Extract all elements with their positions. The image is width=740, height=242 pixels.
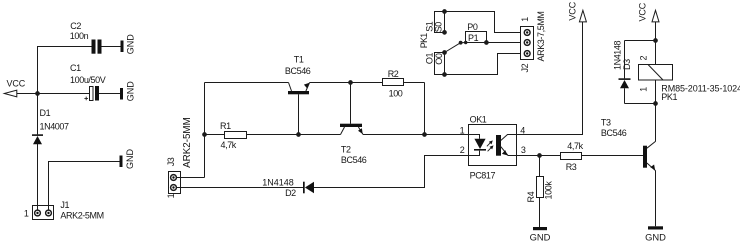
- svg-text:GND: GND: [125, 34, 135, 55]
- svg-text:GND: GND: [125, 149, 135, 170]
- svg-text:R3: R3: [566, 162, 577, 172]
- junction node relay coil pin 2 / D3: [653, 38, 658, 43]
- wire C1 to GND: [99, 93, 120, 95]
- svg-text:P0: P0: [467, 22, 478, 32]
- svg-text:1: 1: [639, 87, 649, 92]
- wire D2 to OK1 pin 2: [314, 156, 469, 188]
- svg-text:J2: J2: [520, 63, 530, 72]
- svg-text:3: 3: [521, 145, 526, 155]
- svg-text:O0: O0: [434, 53, 444, 65]
- switch arm: [445, 41, 466, 53]
- svg-text:PC817: PC817: [470, 170, 496, 180]
- svg-text:J1: J1: [60, 200, 69, 210]
- transistor T3: [643, 141, 656, 170]
- junction node T2 base: [348, 80, 353, 85]
- ground GND (C1): [120, 81, 135, 102]
- svg-text:R1: R1: [220, 121, 231, 131]
- svg-text:4,7k: 4,7k: [567, 141, 583, 151]
- wire D1 to J1 pin 1: [37, 144, 39, 210]
- ground GND (R4): [530, 227, 551, 242]
- connector J2: [521, 27, 534, 60]
- OK1 phototransistor: [496, 135, 517, 156]
- svg-text:BC546: BC546: [601, 128, 627, 138]
- svg-text:1: 1: [166, 193, 176, 198]
- svg-text:100n: 100n: [70, 31, 89, 41]
- junction node R1/left rail: [202, 132, 207, 137]
- resistor R4: [537, 156, 544, 228]
- connector J1: [33, 206, 54, 220]
- svg-text:4,7k: 4,7k: [221, 140, 237, 150]
- relay coil PK1: [639, 41, 673, 104]
- svg-text:1: 1: [24, 209, 29, 219]
- wire O0 to J2 pin 3: [445, 54, 521, 75]
- svg-text:OK1: OK1: [470, 115, 487, 125]
- connector J3: [169, 172, 181, 194]
- optocoupler OK1 box: [469, 125, 517, 166]
- wire VCC node up and right to C2: [38, 47, 92, 94]
- wire left rail vertical: [204, 83, 206, 178]
- svg-text:2: 2: [639, 56, 649, 61]
- svg-text:ARK3-7,5MM: ARK3-7,5MM: [536, 11, 546, 61]
- svg-text:GND: GND: [645, 232, 666, 242]
- wire T3 emitter to GND: [655, 171, 657, 227]
- svg-text:C2: C2: [70, 21, 81, 31]
- power flag VCC (OK1): [567, 1, 586, 22]
- resistor R2: [383, 79, 425, 86]
- svg-text:100: 100: [389, 88, 403, 98]
- capacitor C1 (polarized): [84, 86, 99, 101]
- svg-text:1N4148: 1N4148: [262, 178, 294, 188]
- junction node relay coil pin 1 / D3: [653, 101, 658, 106]
- junction node R3/R4: [537, 153, 542, 158]
- capacitor C2: [92, 40, 102, 54]
- resistor R1: [205, 132, 299, 139]
- svg-text:T2: T2: [341, 144, 351, 154]
- junction node VCC/C1/D1: [35, 91, 40, 96]
- wire J1 pin 2 to GND: [49, 162, 120, 211]
- wire relay node to VCC: [655, 22, 657, 41]
- ground GND (T3): [645, 226, 666, 242]
- svg-text:ARK2-5MM: ARK2-5MM: [60, 211, 103, 221]
- svg-text:100k: 100k: [544, 181, 554, 200]
- svg-text:BC546: BC546: [341, 155, 367, 165]
- svg-text:100u/50V: 100u/50V: [70, 75, 106, 85]
- wire top rail to T1 collector: [205, 82, 289, 84]
- svg-text:R4: R4: [526, 191, 536, 202]
- power flag VCC (left): [4, 78, 26, 97]
- svg-text:BC546: BC546: [285, 66, 311, 76]
- power flag VCC (relay): [637, 2, 659, 22]
- ground GND (J1): [120, 149, 135, 170]
- wire C2 to GND: [101, 46, 120, 48]
- wire OK1 pin 4 to VCC: [517, 22, 583, 135]
- svg-text:1N4007: 1N4007: [40, 122, 70, 132]
- relay pole box P0/P1: [464, 32, 489, 45]
- svg-text:GND: GND: [530, 231, 551, 242]
- relay contact S (S1/S0): [435, 9, 447, 35]
- diode D3: [619, 41, 656, 104]
- svg-text:1: 1: [520, 17, 530, 22]
- svg-text:T1: T1: [294, 54, 304, 64]
- wire VCC node to C1: [38, 93, 90, 95]
- wire top rail T1 emitter to R2: [310, 82, 383, 84]
- svg-text:PK1: PK1: [661, 92, 677, 102]
- wire T2 emitter to OK1 pin 1: [363, 134, 469, 136]
- svg-text:GND: GND: [125, 81, 135, 102]
- svg-text:VCC: VCC: [567, 1, 577, 20]
- transistor T1: [288, 83, 310, 135]
- svg-text:R2: R2: [388, 69, 399, 79]
- svg-text:J3: J3: [166, 157, 176, 166]
- relay contact O (O1/O0): [435, 50, 447, 77]
- ground GND (C2): [121, 34, 136, 55]
- wire S1 to J2 pin 1: [445, 12, 521, 33]
- wire bottom rail T1 base to T2 collector: [299, 134, 341, 136]
- svg-text:P1: P1: [468, 33, 479, 43]
- OK1 LED: [469, 135, 487, 156]
- svg-text:C1: C1: [70, 63, 81, 73]
- wire VCC flag to VCC node: [17, 93, 38, 95]
- wire J3 pin 2 to D2: [176, 187, 303, 189]
- svg-text:D2: D2: [285, 188, 296, 198]
- svg-text:PK1: PK1: [419, 33, 429, 48]
- wire OK1 pin 3 to R3: [517, 155, 561, 157]
- svg-text:T3: T3: [601, 117, 611, 127]
- wire P1 to J2 pin 2: [487, 42, 521, 44]
- OK1 light arrows: [487, 140, 494, 151]
- svg-text:ARK2-5MM: ARK2-5MM: [182, 117, 193, 168]
- resistor R3: [561, 153, 644, 160]
- wire T3 collector to relay coil: [655, 104, 657, 142]
- svg-text:1: 1: [460, 126, 465, 136]
- svg-text:D1: D1: [40, 108, 51, 118]
- svg-text:S0: S0: [434, 22, 444, 33]
- wire VCC node down to D1: [37, 94, 39, 135]
- svg-text:VCC: VCC: [7, 78, 26, 88]
- diode D2: [303, 182, 314, 194]
- junction node T1 base: [296, 132, 301, 137]
- svg-text:VCC: VCC: [637, 2, 647, 21]
- svg-text:2: 2: [460, 145, 465, 155]
- diode D1: [32, 134, 43, 144]
- wire J3 pin 1 right: [176, 177, 204, 179]
- junction node bottom rail/OK1 pin1: [422, 132, 427, 137]
- transistor T2: [340, 83, 363, 135]
- svg-text:D3: D3: [622, 59, 632, 70]
- wire R2 down to bottom rail: [424, 83, 426, 135]
